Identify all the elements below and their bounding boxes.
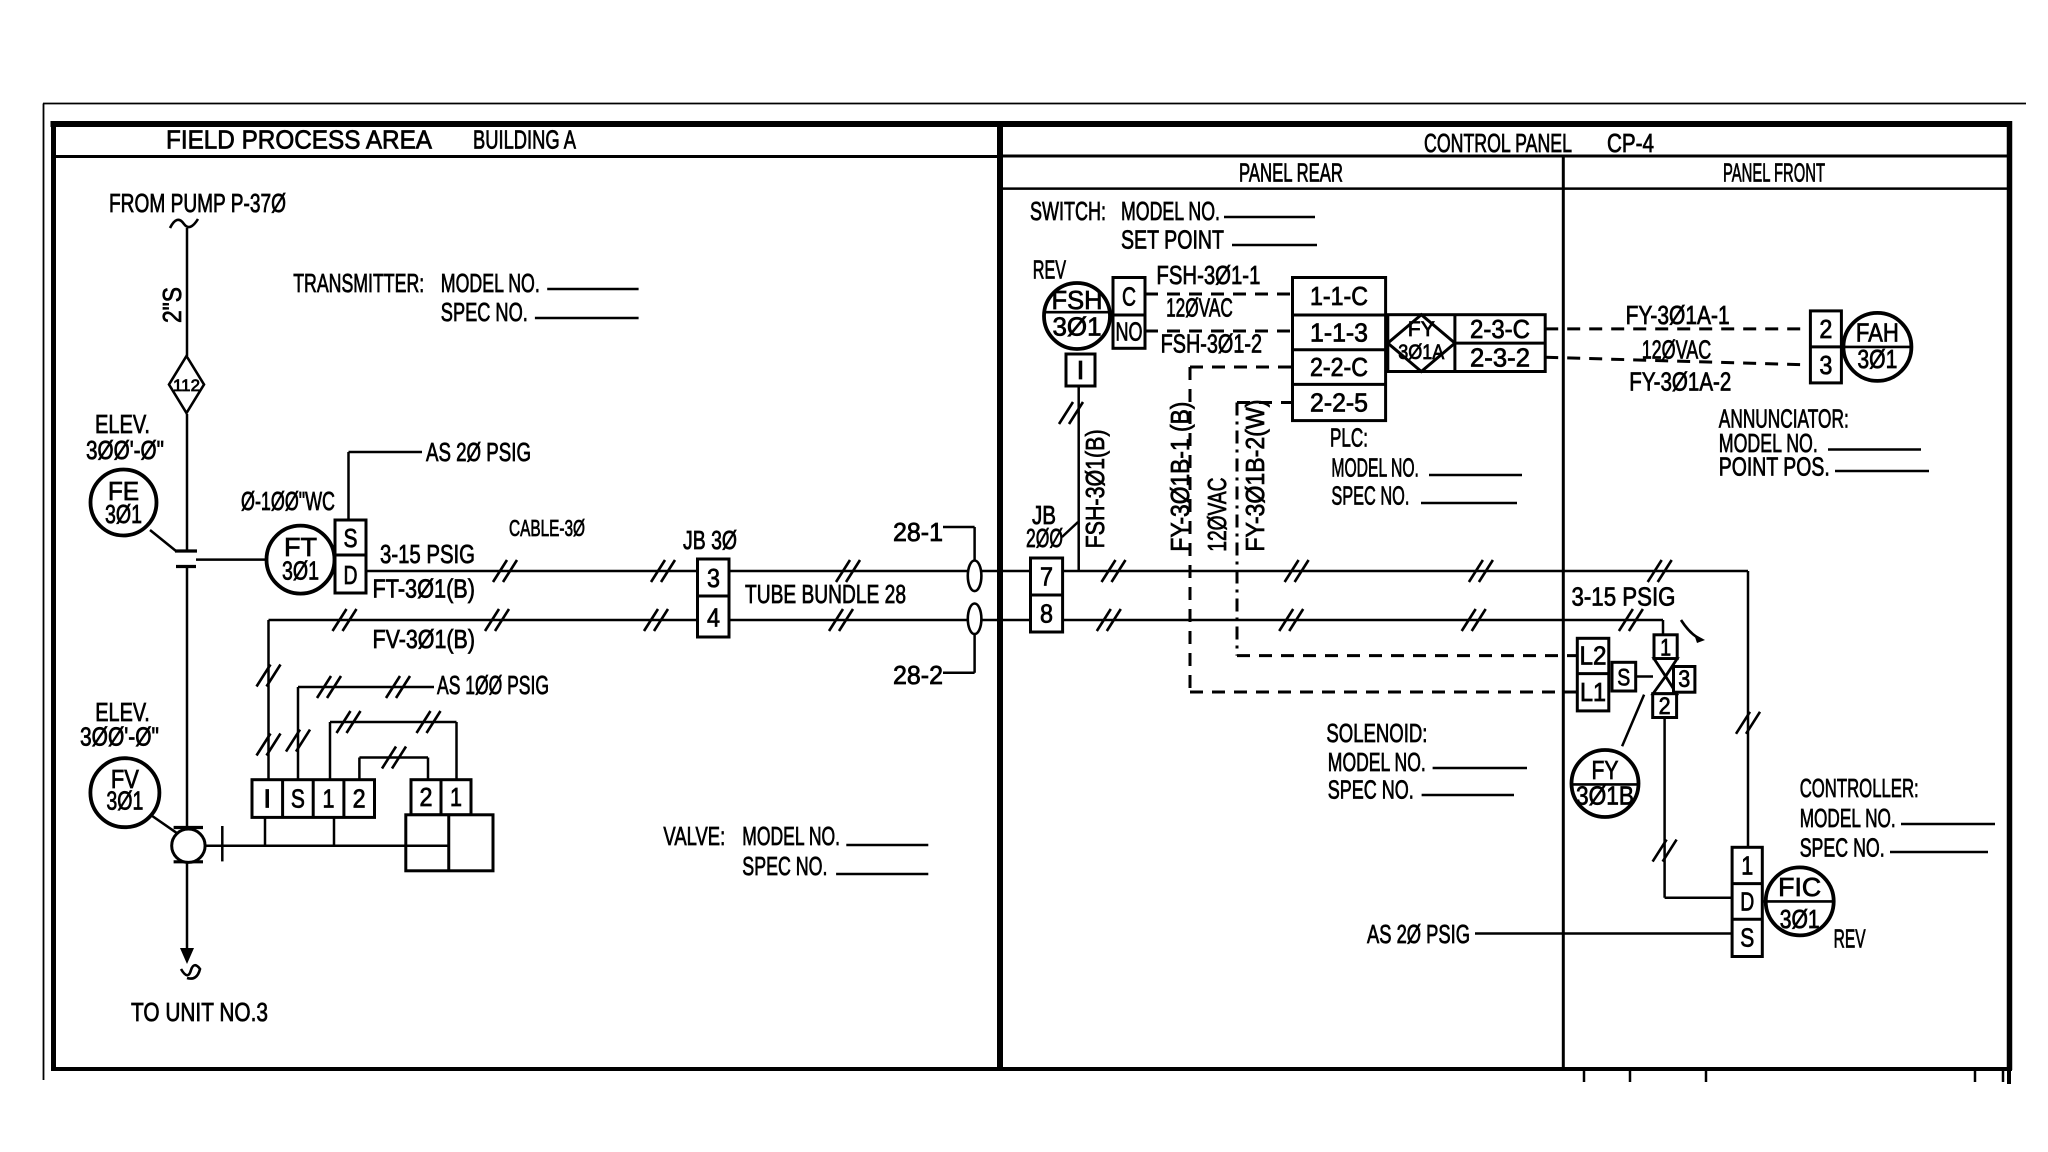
svg-text:28-2: 28-2 <box>893 660 943 690</box>
svg-text:AS 2Ø PSIG: AS 2Ø PSIG <box>426 437 531 467</box>
svg-text:PANEL FRONT: PANEL FRONT <box>1723 158 1825 188</box>
svg-text:7: 7 <box>1040 562 1053 592</box>
svg-text:FIC: FIC <box>1778 872 1821 902</box>
svg-text:3Ø1B: 3Ø1B <box>1576 781 1634 811</box>
svg-text:SPEC NO.: SPEC NO. <box>1331 481 1409 511</box>
svg-text:MODEL NO.: MODEL NO. <box>1328 747 1426 777</box>
svg-text:JB 3Ø: JB 3Ø <box>683 525 737 555</box>
svg-text:S: S <box>344 523 358 553</box>
svg-text:28-1: 28-1 <box>893 517 943 547</box>
svg-text:TO UNIT NO.3: TO UNIT NO.3 <box>131 997 268 1027</box>
svg-text:TRANSMITTER:: TRANSMITTER: <box>293 268 424 298</box>
svg-text:12ØVAC: 12ØVAC <box>1642 335 1712 365</box>
svg-text:FSH-3Ø1(B): FSH-3Ø1(B) <box>1080 429 1110 548</box>
svg-text:I: I <box>1077 355 1085 385</box>
svg-text:S: S <box>1740 923 1754 953</box>
svg-text:12ØVAC: 12ØVAC <box>1166 293 1233 323</box>
svg-text:TUBE BUNDLE 28: TUBE BUNDLE 28 <box>745 579 906 609</box>
svg-text:3ØØ'-Ø": 3ØØ'-Ø" <box>80 722 159 752</box>
svg-text:FIELD PROCESS AREA: FIELD PROCESS AREA <box>166 125 433 155</box>
svg-text:2-2-5: 2-2-5 <box>1310 388 1368 418</box>
svg-text:3Ø1A: 3Ø1A <box>1398 341 1444 364</box>
svg-text:2: 2 <box>1659 693 1671 720</box>
svg-text:MODEL NO.: MODEL NO. <box>742 821 840 851</box>
svg-text:2: 2 <box>353 784 366 814</box>
svg-text:REV: REV <box>1834 924 1866 954</box>
svg-text:3-15 PSIG: 3-15 PSIG <box>380 539 475 569</box>
svg-text:C: C <box>1122 282 1136 312</box>
svg-text:2-2-C: 2-2-C <box>1310 352 1368 382</box>
svg-text:FY-3Ø1B-1 (B): FY-3Ø1B-1 (B) <box>1165 402 1195 552</box>
svg-text:FY-3Ø1A-1: FY-3Ø1A-1 <box>1626 300 1730 330</box>
svg-text:3Ø1: 3Ø1 <box>1053 312 1102 342</box>
svg-text:FY: FY <box>1408 318 1435 341</box>
svg-text:8: 8 <box>1040 599 1053 629</box>
svg-text:Ø-1ØØ"WC: Ø-1ØØ"WC <box>241 486 335 516</box>
svg-text:1: 1 <box>1741 851 1753 881</box>
svg-text:1-1-3: 1-1-3 <box>1310 317 1368 347</box>
svg-text:MODEL NO.: MODEL NO. <box>1800 803 1896 833</box>
svg-text:1-1-C: 1-1-C <box>1310 281 1368 311</box>
svg-text:S: S <box>291 784 305 814</box>
svg-text:3Ø1: 3Ø1 <box>106 786 143 816</box>
svg-text:POINT POS.: POINT POS. <box>1719 452 1830 482</box>
svg-text:1: 1 <box>450 782 462 812</box>
svg-text:3-15 PSIG: 3-15 PSIG <box>1572 582 1676 612</box>
svg-text:AS 1ØØ PSIG: AS 1ØØ PSIG <box>437 670 549 700</box>
svg-text:SET POINT: SET POINT <box>1121 225 1224 255</box>
svg-text:SPEC NO.: SPEC NO. <box>742 851 827 881</box>
svg-text:S: S <box>1617 665 1630 692</box>
svg-text:FSH: FSH <box>1052 285 1103 315</box>
svg-text:SWITCH:: SWITCH: <box>1030 196 1106 226</box>
svg-text:3: 3 <box>1819 350 1832 380</box>
svg-text:CABLE-3Ø: CABLE-3Ø <box>509 515 585 541</box>
svg-text:112: 112 <box>173 376 200 395</box>
svg-text:3Ø1: 3Ø1 <box>105 499 142 529</box>
svg-text:CONTROL PANEL: CONTROL PANEL <box>1424 128 1572 158</box>
svg-text:FY-3Ø1A-2: FY-3Ø1A-2 <box>1629 367 1731 397</box>
svg-text:L2: L2 <box>1580 641 1607 671</box>
svg-text:SPEC NO.: SPEC NO. <box>1328 775 1414 805</box>
svg-text:BUILDING A: BUILDING A <box>473 125 576 155</box>
svg-text:3ØØ'-Ø": 3ØØ'-Ø" <box>86 435 164 465</box>
svg-text:3: 3 <box>707 563 720 593</box>
svg-text:3Ø1: 3Ø1 <box>282 556 319 586</box>
svg-text:SPEC NO.: SPEC NO. <box>1800 833 1885 863</box>
svg-text:CP-4: CP-4 <box>1607 128 1654 158</box>
svg-text:FV-3Ø1(B): FV-3Ø1(B) <box>373 624 476 654</box>
svg-text:I: I <box>263 784 271 814</box>
svg-text:SPEC NO.: SPEC NO. <box>441 297 528 327</box>
svg-text:4: 4 <box>707 603 720 633</box>
svg-text:PLC:: PLC: <box>1330 423 1368 453</box>
svg-text:NO: NO <box>1116 317 1143 347</box>
svg-text:3: 3 <box>1678 666 1690 693</box>
svg-text:SOLENOID:: SOLENOID: <box>1326 718 1427 748</box>
svg-text:MODEL NO.: MODEL NO. <box>1121 196 1220 226</box>
svg-text:2: 2 <box>420 782 433 812</box>
svg-text:FY-3Ø1B-2(W): FY-3Ø1B-2(W) <box>1240 400 1270 552</box>
svg-text:MODEL NO.: MODEL NO. <box>1331 453 1419 483</box>
svg-text:PANEL REAR: PANEL REAR <box>1239 158 1343 188</box>
svg-text:3Ø1: 3Ø1 <box>1780 904 1820 934</box>
svg-text:12ØVAC: 12ØVAC <box>1202 478 1232 552</box>
svg-text:2ØØ: 2ØØ <box>1026 523 1063 553</box>
svg-text:AS 2Ø PSIG: AS 2Ø PSIG <box>1367 919 1470 949</box>
svg-text:MODEL NO.: MODEL NO. <box>441 268 540 298</box>
svg-text:VALVE:: VALVE: <box>663 821 725 851</box>
svg-text:FAH: FAH <box>1856 318 1899 348</box>
svg-text:2: 2 <box>1819 314 1832 344</box>
svg-text:1: 1 <box>323 784 335 814</box>
svg-text:FSH-3Ø1-2: FSH-3Ø1-2 <box>1161 329 1262 359</box>
svg-text:L1: L1 <box>1580 677 1606 707</box>
svg-text:FROM PUMP P-37Ø: FROM PUMP P-37Ø <box>109 188 286 218</box>
svg-text:FSH-3Ø1-1: FSH-3Ø1-1 <box>1156 260 1260 290</box>
svg-text:FT-3Ø1(B): FT-3Ø1(B) <box>373 574 476 604</box>
svg-text:REV: REV <box>1033 255 1067 285</box>
svg-text:3Ø1: 3Ø1 <box>1857 344 1897 374</box>
svg-text:2-3-2: 2-3-2 <box>1470 342 1530 372</box>
svg-text:2-3-C: 2-3-C <box>1470 314 1530 344</box>
svg-text:D: D <box>1740 887 1754 917</box>
svg-text:2"S: 2"S <box>157 287 187 323</box>
svg-text:D: D <box>344 560 358 590</box>
svg-text:CONTROLLER:: CONTROLLER: <box>1800 773 1919 803</box>
